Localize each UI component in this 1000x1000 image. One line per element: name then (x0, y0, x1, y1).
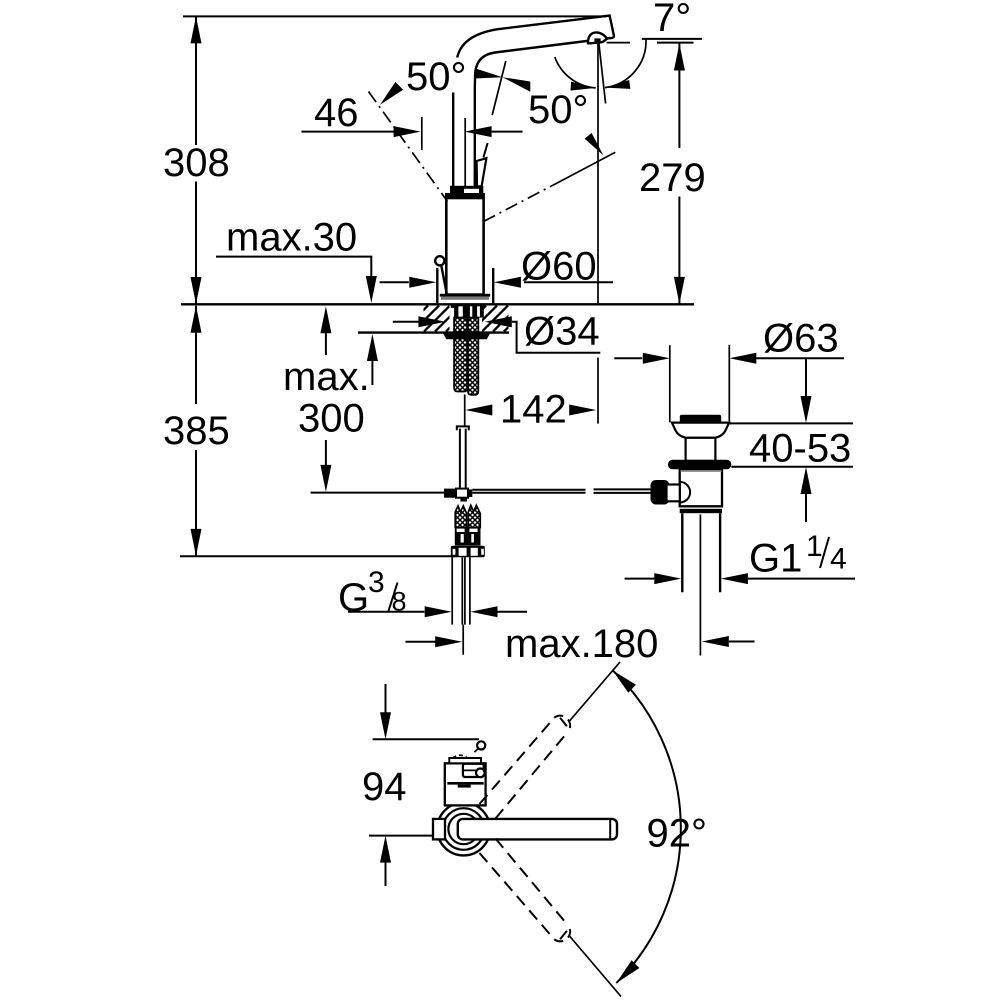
svg-text:142: 142 (500, 388, 567, 432)
svg-text:50°: 50° (406, 55, 467, 99)
svg-text:Ø63: Ø63 (763, 317, 839, 361)
pop-up rod upper (464, 395, 466, 426)
svg-text:3: 3 (368, 566, 385, 599)
escutcheon base (437, 268, 493, 303)
dim max.180 (406, 622, 755, 666)
linkage knob at drain (651, 480, 670, 505)
angle 92-deg arc (613, 670, 708, 983)
drain tailpipe (682, 513, 720, 592)
top view: handle bar (458, 819, 617, 840)
dim 279 (639, 44, 706, 304)
angle 7-deg outlet (598, 0, 702, 424)
svg-text:max.30: max.30 (226, 216, 357, 260)
drain body (680, 469, 722, 506)
dim G 3/8 (338, 566, 527, 620)
dim O60 (380, 245, 613, 289)
faucet axis extension (462, 625, 464, 655)
dim 94 (362, 684, 479, 886)
escutcheon plate (440, 294, 490, 300)
dim 308 (163, 16, 606, 304)
counter hatching (402, 306, 483, 332)
horizontal linkage rod (472, 489, 650, 493)
svg-text:94: 94 (362, 765, 407, 809)
dim O34 (393, 310, 601, 354)
supply hoses (452, 557, 470, 624)
dim G1 1/4 (625, 530, 855, 584)
dim 40-53 (729, 358, 853, 522)
ball housing (667, 482, 691, 503)
top view: pull-rod hook (474, 741, 485, 752)
top view: body circles (437, 803, 490, 856)
svg-text:308: 308 (163, 141, 230, 185)
svg-text:max.180: max.180 (505, 622, 658, 666)
drain neck (686, 438, 716, 461)
svg-text:G1: G1 (749, 537, 802, 581)
svg-text:7°: 7° (653, 0, 691, 40)
top view: cartridge block (445, 755, 486, 805)
top view: swivel range dashed tube upper (480, 662, 621, 819)
svg-text:300: 300 (298, 397, 365, 441)
countertop (181, 304, 694, 332)
drain center line (699, 515, 701, 656)
mounting nut above (451, 305, 484, 329)
svg-text:40-53: 40-53 (749, 427, 851, 471)
svg-text:92°: 92° (647, 812, 708, 856)
dim 46 (302, 91, 523, 150)
spout inner pipe line (464, 118, 466, 186)
locknut (443, 333, 491, 340)
svg-text:279: 279 (639, 156, 706, 200)
svg-text:1: 1 (806, 530, 823, 563)
svg-text:50°: 50° (528, 88, 589, 132)
svg-text:Ø34: Ø34 (524, 310, 600, 354)
cartridge collar (450, 186, 483, 195)
dim 142 (465, 388, 596, 432)
svg-text:G: G (338, 576, 369, 620)
threaded studs (454, 318, 478, 395)
faucet body (446, 194, 485, 295)
pop-up rod with T-cap (457, 426, 469, 488)
angle 50-deg swivel (lower label) with handle-range dash-dot (484, 57, 616, 221)
drain body bottom rim (680, 506, 722, 513)
top view: swivel range dashed tube lower (480, 839, 622, 997)
pull-rod knob (435, 256, 446, 293)
drain plug cap (680, 415, 721, 423)
linkage junction (444, 489, 472, 502)
angle 50-deg spout (upper label) (369, 55, 531, 202)
drain seal ring (668, 460, 731, 470)
svg-text:385: 385 (163, 409, 230, 453)
supply check valves (451, 505, 485, 557)
top view: left socket (433, 819, 445, 840)
spout outline (453, 16, 614, 187)
svg-text:46: 46 (314, 91, 359, 135)
aerator (588, 32, 607, 43)
svg-text:max.: max. (283, 355, 370, 399)
svg-text:4: 4 (830, 543, 847, 576)
dim O63 (614, 317, 844, 423)
drain flare (672, 423, 729, 438)
handle lever (477, 143, 488, 186)
dim max.30 (216, 216, 378, 386)
dim max.300 (283, 306, 444, 492)
dim 385 (163, 306, 454, 557)
